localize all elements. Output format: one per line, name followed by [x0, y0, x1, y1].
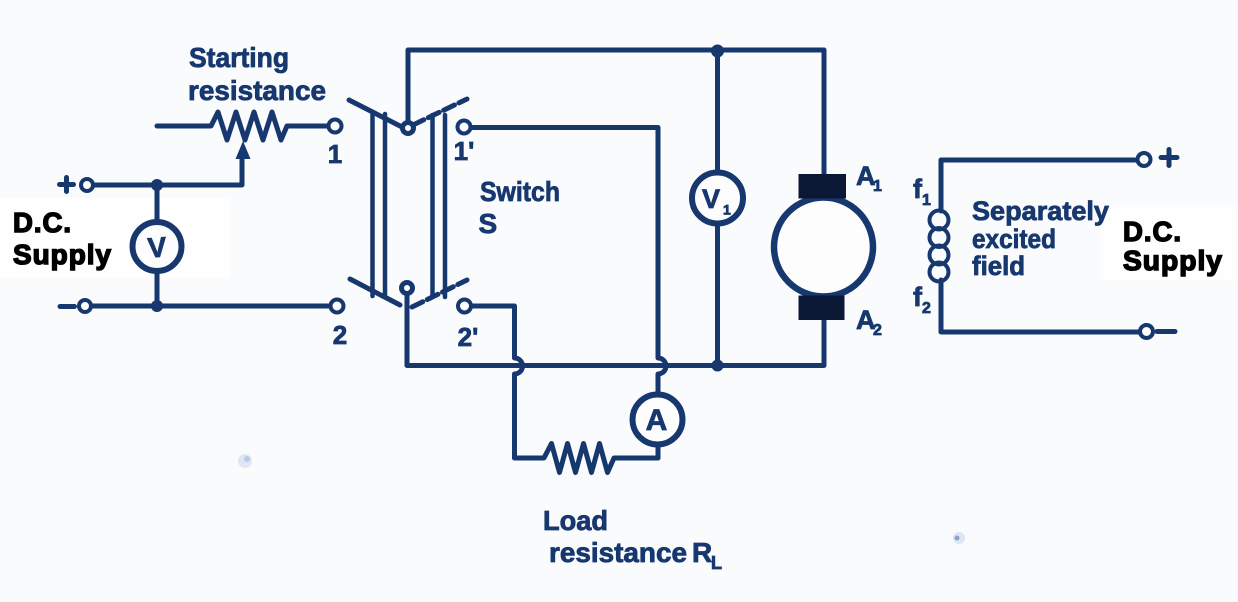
- svg-text:Supply: Supply: [1123, 245, 1223, 276]
- svg-text:1: 1: [723, 202, 731, 218]
- svg-text:2: 2: [922, 300, 931, 317]
- svg-text:V: V: [702, 184, 720, 214]
- svg-text:A: A: [646, 404, 668, 437]
- svg-text:1: 1: [922, 192, 931, 209]
- svg-text:R: R: [692, 537, 712, 568]
- svg-text:D.C.: D.C.: [1123, 216, 1182, 247]
- svg-text:Load: Load: [543, 505, 608, 536]
- svg-text:excited: excited: [972, 224, 1056, 254]
- svg-text:2: 2: [333, 320, 347, 350]
- svg-text:V: V: [147, 231, 168, 263]
- svg-text:Separately: Separately: [972, 196, 1109, 226]
- svg-text:2: 2: [873, 322, 882, 339]
- svg-text:1: 1: [328, 139, 342, 169]
- svg-text:L: L: [711, 553, 722, 573]
- svg-text:resistance: resistance: [188, 75, 326, 106]
- svg-text:resistance: resistance: [549, 537, 687, 568]
- svg-text:1': 1': [454, 136, 475, 166]
- svg-text:2': 2': [458, 322, 479, 352]
- svg-text:S: S: [479, 208, 498, 239]
- svg-text:Starting: Starting: [189, 42, 289, 73]
- svg-text:1: 1: [873, 178, 882, 195]
- svg-text:field: field: [972, 251, 1025, 281]
- svg-text:Switch: Switch: [480, 176, 560, 207]
- svg-text:Supply: Supply: [13, 239, 112, 270]
- svg-text:D.C.: D.C.: [13, 207, 72, 238]
